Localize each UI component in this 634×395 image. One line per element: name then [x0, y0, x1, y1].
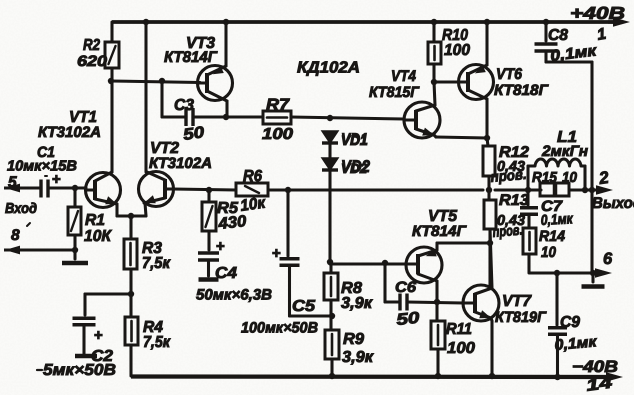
svg-text:С5: С5: [292, 298, 316, 315]
svg-text:Выход: Выход: [592, 195, 634, 212]
svg-text:100: 100: [444, 42, 470, 59]
svg-text:100мк×50В: 100мк×50В: [241, 320, 318, 337]
svg-text:R2: R2: [83, 37, 100, 54]
svg-text:7,5к: 7,5к: [142, 255, 171, 272]
svg-text:10К: 10К: [84, 228, 112, 245]
svg-text:7,5к: 7,5к: [143, 334, 171, 351]
svg-text:VD2: VD2: [341, 157, 370, 176]
svg-text:10: 10: [562, 170, 577, 186]
svg-text:14: 14: [585, 374, 613, 395]
svg-text:R9: R9: [343, 331, 364, 348]
svg-text:VT6: VT6: [496, 66, 522, 83]
svg-text:100: 100: [262, 126, 293, 143]
svg-text:пров.: пров.: [492, 222, 523, 241]
svg-text:R14: R14: [539, 228, 566, 245]
svg-text:пров.: пров.: [490, 167, 527, 186]
svg-text:5: 5: [8, 174, 17, 191]
svg-text:50мк×6,3В: 50мк×6,3В: [196, 287, 272, 304]
svg-text:КТ3102А: КТ3102А: [149, 155, 212, 172]
svg-text:3,9к: 3,9к: [341, 295, 373, 312]
svg-text:С3: С3: [174, 97, 194, 114]
svg-text:+40В: +40В: [570, 3, 625, 23]
svg-text:3,9к: 3,9к: [342, 349, 374, 366]
svg-text:С6: С6: [395, 279, 417, 296]
svg-text:С4: С4: [215, 265, 237, 282]
svg-text:−40В: −40В: [572, 358, 618, 376]
svg-text:Вход: Вход: [5, 201, 37, 217]
svg-text:R6: R6: [243, 168, 262, 185]
svg-text:R7: R7: [266, 96, 290, 114]
svg-text:10к: 10к: [239, 195, 267, 215]
svg-text:R15: R15: [532, 170, 558, 186]
svg-text:+: +: [94, 327, 103, 344]
svg-text:С9: С9: [560, 314, 580, 331]
svg-text:VD1: VD1: [341, 130, 368, 149]
svg-text:КД102А: КД102А: [297, 60, 360, 77]
svg-text:КТ818Г: КТ818Г: [494, 82, 549, 99]
svg-text:+: +: [272, 245, 281, 262]
svg-text:КТ814Г: КТ814Г: [412, 223, 467, 240]
svg-text:R13: R13: [499, 192, 529, 209]
svg-text:50: 50: [396, 310, 421, 329]
svg-text:5мк×50В: 5мк×50В: [43, 362, 116, 379]
svg-text:VT4: VT4: [391, 68, 416, 85]
svg-text:6: 6: [603, 250, 613, 268]
svg-text:КТ819Г: КТ819Г: [495, 309, 547, 326]
svg-text:С8: С8: [548, 27, 568, 44]
svg-text:КТ814Г: КТ814Г: [164, 49, 218, 66]
svg-text:100: 100: [447, 340, 475, 357]
svg-text:КТ815Г: КТ815Г: [369, 84, 420, 101]
svg-text:R1: R1: [85, 212, 105, 229]
svg-text:VT7: VT7: [502, 293, 532, 310]
svg-text:0,1мк: 0,1мк: [540, 211, 573, 229]
svg-text:620: 620: [77, 53, 108, 70]
svg-text:+: +: [216, 238, 225, 255]
svg-text:R11: R11: [446, 321, 472, 338]
svg-text:КТ3102А: КТ3102А: [38, 124, 101, 141]
svg-text:2мкГн: 2мкГн: [541, 143, 588, 160]
svg-text:430: 430: [217, 213, 248, 233]
svg-text:10: 10: [541, 244, 557, 261]
svg-text:50: 50: [182, 124, 205, 144]
svg-text:10мк×15В: 10мк×15В: [7, 159, 77, 175]
svg-text:8: 8: [11, 227, 20, 244]
